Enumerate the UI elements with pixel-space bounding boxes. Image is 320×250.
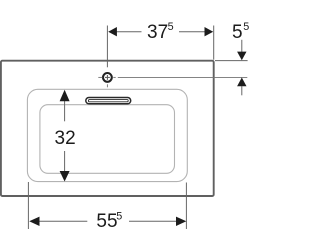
svg-text:55: 55 xyxy=(96,211,117,232)
svg-text:32: 32 xyxy=(55,128,76,149)
svg-text:5: 5 xyxy=(232,22,243,43)
svg-text:37: 37 xyxy=(147,22,168,43)
svg-text:5: 5 xyxy=(168,21,174,33)
svg-text:5: 5 xyxy=(243,21,249,33)
svg-text:5: 5 xyxy=(116,210,122,222)
